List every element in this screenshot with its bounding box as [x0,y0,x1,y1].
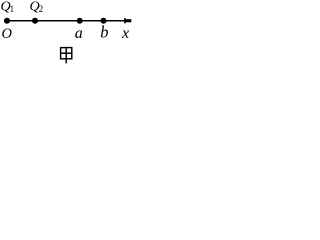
svg-text:x: x [121,25,129,42]
svg-text:b: b [100,23,108,42]
svg-text:O: O [2,26,13,42]
svg-text:2: 2 [39,4,44,14]
svg-text:a: a [75,25,83,42]
svg-text:1: 1 [10,4,15,14]
